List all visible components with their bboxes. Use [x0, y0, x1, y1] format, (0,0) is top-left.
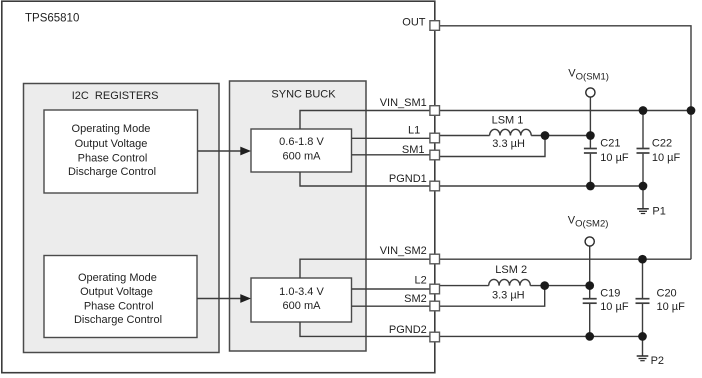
svg-text:SM1: SM1: [402, 144, 425, 156]
svg-text:OUT: OUT: [402, 17, 426, 29]
svg-text:0.6-1.8 V: 0.6-1.8 V: [279, 136, 324, 148]
svg-text:P2: P2: [651, 355, 664, 367]
svg-text:TPS65810: TPS65810: [25, 12, 79, 24]
svg-text:Output Voltage: Output Voltage: [75, 138, 148, 150]
svg-text:I2C REGISTERS: I2C REGISTERS: [72, 90, 159, 102]
svg-text:600 mA: 600 mA: [283, 150, 322, 162]
svg-text:C19: C19: [600, 288, 620, 300]
svg-text:10 µF: 10 µF: [600, 152, 629, 164]
svg-text:PGND1: PGND1: [389, 173, 427, 185]
svg-text:Operating Mode: Operating Mode: [78, 272, 157, 284]
svg-text:Discharge Control: Discharge Control: [74, 314, 162, 326]
svg-text:Phase Control: Phase Control: [78, 153, 148, 165]
svg-text:LSM 2: LSM 2: [495, 264, 527, 276]
svg-text:PGND2: PGND2: [389, 324, 427, 336]
svg-text:Operating Mode: Operating Mode: [72, 123, 151, 135]
svg-text:Output Voltage: Output Voltage: [80, 286, 153, 298]
svg-text:10 µF: 10 µF: [657, 301, 686, 313]
svg-text:C20: C20: [657, 288, 677, 300]
svg-text:VIN_SM1: VIN_SM1: [380, 97, 427, 109]
svg-text:L2: L2: [415, 275, 427, 287]
svg-text:C21: C21: [600, 138, 620, 150]
svg-text:P1: P1: [652, 206, 665, 218]
svg-text:Phase Control: Phase Control: [84, 300, 154, 312]
svg-text:3.3 µH: 3.3 µH: [492, 138, 525, 150]
svg-text:SM2: SM2: [404, 293, 427, 305]
svg-text:10 µF: 10 µF: [600, 301, 629, 313]
svg-text:Discharge Control: Discharge Control: [68, 166, 156, 178]
svg-text:C22: C22: [652, 138, 672, 150]
svg-text:10 µF: 10 µF: [652, 152, 681, 164]
svg-text:SYNC BUCK: SYNC BUCK: [271, 88, 336, 100]
svg-text:3.3 µH: 3.3 µH: [492, 289, 525, 301]
svg-text:LSM 1: LSM 1: [492, 115, 524, 127]
svg-text:600 mA: 600 mA: [283, 300, 322, 312]
svg-text:L1: L1: [408, 125, 420, 137]
svg-text:1.0-3.4 V: 1.0-3.4 V: [279, 286, 324, 298]
svg-text:VIN_SM2: VIN_SM2: [380, 245, 427, 257]
